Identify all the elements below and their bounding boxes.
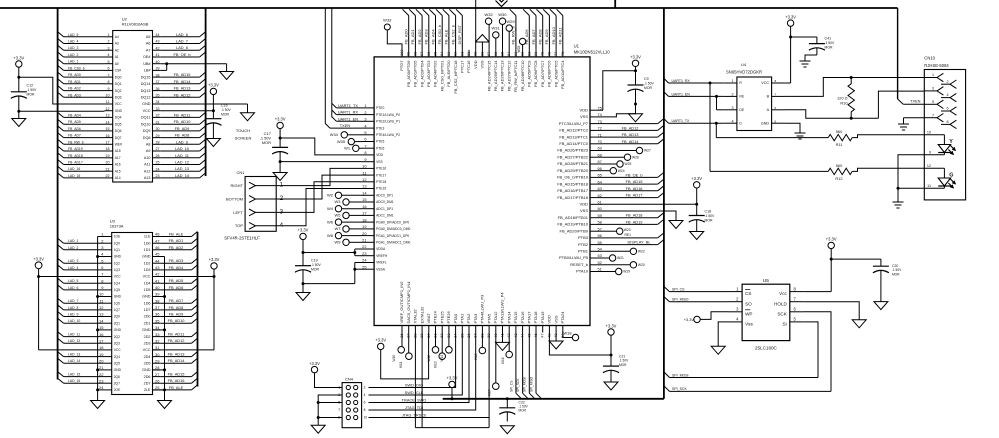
jumper W34 — [330, 132, 361, 138]
wire +3.3V to U2 pin 11 VCC — [19, 67, 105, 104]
svg-text:FB_AD2: FB_AD2 — [68, 87, 81, 91]
IC U1 left pins — [361, 103, 411, 271]
wire U2 pin 34 GND — [161, 104, 248, 113]
svg-text:560: 560 — [836, 163, 843, 168]
svg-text:1D7: 1D7 — [144, 308, 151, 312]
svg-text:27: 27 — [156, 147, 160, 151]
svg-text:FB_AD14/PTC0: FB_AD14/PTC0 — [559, 141, 588, 146]
svg-text:FB_AD16: FB_AD16 — [626, 186, 643, 191]
capacitor C12 — [11, 77, 37, 111]
svg-text:FB_AD3: FB_AD3 — [68, 93, 81, 97]
svg-text:PTE4/LLWU_P2: PTE4/LLWU_P2 — [376, 133, 400, 137]
svg-text:W13: W13 — [434, 361, 438, 368]
svg-text:1D5: 1D5 — [144, 288, 151, 292]
svg-text:VSS: VSS — [580, 208, 588, 213]
svg-text:VCC: VCC — [143, 109, 151, 113]
svg-text:W31: W31 — [491, 26, 500, 31]
svg-text:45: 45 — [155, 252, 160, 257]
svg-text:W17: W17 — [487, 389, 491, 396]
svg-text:PTB2: PTB2 — [578, 242, 589, 247]
svg-text:DISPLAY_BL: DISPLAY_BL — [627, 239, 651, 244]
wire +3.3V to U1 pin 8 VDD — [280, 129, 361, 155]
svg-text:WE#: WE# — [115, 143, 122, 147]
wire U2 pin 12 GND to C12 — [19, 110, 105, 112]
svg-text:LAD_16: LAD_16 — [68, 167, 80, 171]
svg-text:SO: SO — [745, 301, 752, 306]
svg-text:VCC: VCC — [143, 275, 151, 279]
svg-text:2: 2 — [108, 40, 110, 44]
svg-text:FB_CS0_b/PTD1: FB_CS0_b/PTD1 — [439, 60, 444, 92]
svg-text:PTA3: PTA3 — [473, 313, 478, 323]
svg-text:14: 14 — [99, 318, 104, 323]
svg-text:11: 11 — [106, 100, 110, 104]
svg-text:FB_AD26/PTC13: FB_AD26/PTC13 — [500, 60, 505, 92]
svg-text:19: 19 — [362, 224, 366, 229]
svg-text:79: 79 — [540, 52, 545, 56]
svg-text:C9: C9 — [644, 77, 649, 81]
svg-text:12: 12 — [927, 164, 931, 168]
wire +3.3V to bottom rail — [451, 388, 454, 401]
ground below C18 — [690, 232, 704, 240]
svg-text:PTA16: PTA16 — [520, 311, 525, 324]
svg-text:UART1_RX: UART1_RX — [672, 79, 691, 83]
wire +3.3V to U5 Vcc — [803, 249, 832, 292]
svg-text:29: 29 — [155, 358, 160, 363]
svg-text:W3: W3 — [335, 199, 342, 204]
svg-text:FB_AD17/PTB16: FB_AD17/PTB16 — [557, 195, 588, 200]
connector CN10 pin11 stub — [927, 184, 931, 188]
wire R11 to CN10 pin10 — [852, 135, 924, 138]
svg-text:1D3: 1D3 — [144, 268, 151, 272]
svg-text:UB#: UB# — [143, 62, 151, 66]
svg-text:5: 5 — [108, 60, 110, 64]
svg-text:89: 89 — [473, 52, 478, 56]
svg-text:HOLD: HOLD — [774, 301, 787, 306]
svg-text:2D7: 2D7 — [144, 381, 151, 385]
svg-text:GND: GND — [115, 109, 123, 113]
svg-text:XTAL32: XTAL32 — [413, 309, 418, 324]
wire U2 pin 33 VCC to C16 — [161, 95, 214, 111]
svg-text:15: 15 — [99, 325, 104, 330]
svg-text:FB_AD9: FB_AD9 — [175, 126, 190, 131]
svg-text:RIGHT: RIGHT — [231, 183, 244, 188]
wire +3.3V to U1 pin 75 VDD — [603, 67, 636, 111]
capacitor C19 — [295, 253, 322, 284]
svg-text:C18: C18 — [705, 210, 712, 214]
svg-text:DQ10: DQ10 — [141, 122, 151, 126]
svg-text:FB_AD4: FB_AD4 — [68, 113, 81, 117]
svg-text:FB_AD19: FB_AD19 — [68, 147, 83, 151]
svg-text:8: 8 — [946, 120, 948, 124]
svg-text:+3.3V: +3.3V — [298, 228, 309, 233]
svg-text:46: 46 — [155, 245, 160, 250]
svg-text:R1LV0816ASB: R1LV0816ASB — [122, 22, 149, 27]
svg-text:FB_AD10: FB_AD10 — [174, 119, 192, 124]
svg-text:86: 86 — [493, 52, 498, 56]
jumper W32 — [484, 12, 493, 50]
svg-text:TRACE_SWO: TRACE_SWO — [402, 398, 427, 403]
svg-text:PTE24: PTE24 — [433, 310, 438, 323]
power +3.3V symbol for VBAT — [375, 338, 386, 350]
LED G green — [924, 168, 955, 188]
svg-text:1Q1: 1Q1 — [114, 248, 120, 252]
svg-text:TOP: TOP — [235, 223, 243, 228]
junction C17 bottom — [279, 160, 282, 163]
svg-text:3: 3 — [280, 208, 284, 215]
svg-text:13: 13 — [106, 114, 110, 118]
wire U4 GND to ground — [785, 123, 800, 130]
svg-text:.1 50V: .1 50V — [27, 88, 38, 92]
svg-text:FB_ALE: FB_ALE — [169, 385, 184, 390]
wire SPI_MISO net — [664, 297, 729, 302]
power +3.3V symbol for C12 — [13, 55, 24, 67]
svg-text:DQ2: DQ2 — [115, 89, 122, 93]
svg-text:FB_AD27/PTC12: FB_AD27/PTC12 — [506, 60, 511, 92]
wire U2 UB#/LB# to ground — [161, 64, 227, 72]
svg-text:47: 47 — [540, 334, 545, 338]
svg-text:LAD_6: LAD_6 — [176, 32, 188, 37]
svg-text:FB_AD17: FB_AD17 — [626, 193, 643, 198]
svg-text:2: 2 — [731, 93, 733, 97]
svg-text:DQ14: DQ14 — [141, 82, 151, 86]
wire +3.3V to U1 pin 61 VDD — [603, 188, 697, 204]
svg-text:PTE19: PTE19 — [376, 187, 386, 191]
wire U2 right bus — [205, 8, 207, 176]
svg-text:FB_AD11: FB_AD11 — [558, 27, 563, 45]
svg-text:2Q0: 2Q0 — [114, 315, 120, 319]
svg-text:A11: A11 — [144, 163, 150, 167]
power +3.3V symbol for C21 — [606, 323, 617, 335]
wires FB_OE FB_AD15-17 to bus — [603, 172, 664, 197]
svg-text:VCC: VCC — [115, 102, 123, 106]
svg-text:VREFH: VREFH — [376, 254, 388, 258]
svg-text:FB_AD2: FB_AD2 — [169, 245, 184, 250]
svg-text:DQ3: DQ3 — [115, 96, 122, 100]
svg-text:FB_AD9: FB_AD9 — [544, 29, 549, 45]
svg-text:PTA17: PTA17 — [527, 311, 532, 324]
svg-text:SPI_MISO: SPI_MISO — [529, 376, 533, 392]
svg-text:UART1_EN: UART1_EN — [672, 92, 691, 96]
svg-text:FB_RW_b: FB_RW_b — [68, 140, 84, 144]
svg-text:1LE: 1LE — [144, 235, 151, 239]
svg-text:27: 27 — [155, 372, 160, 377]
svg-text:DQ13: DQ13 — [141, 89, 151, 93]
svg-text:1D0: 1D0 — [144, 241, 151, 245]
svg-text:LAD_8: LAD_8 — [176, 45, 188, 50]
wire TXEN net from top bus — [897, 8, 899, 99]
svg-text:W28: W28 — [517, 46, 521, 53]
svg-text:21: 21 — [99, 365, 104, 370]
jumpers W19-W22 — [603, 248, 645, 275]
svg-text:DQ5: DQ5 — [115, 122, 122, 126]
ground below CN4 — [311, 425, 325, 433]
svg-text:12: 12 — [362, 177, 366, 182]
svg-text:FB_AD2: FB_AD2 — [417, 29, 422, 45]
svg-text:FB_AD19: FB_AD19 — [626, 219, 643, 224]
svg-text:22: 22 — [362, 244, 366, 249]
jumper W18 — [563, 331, 579, 341]
wire DE pin jumper — [717, 96, 724, 109]
svg-text:GND: GND — [142, 295, 151, 299]
svg-text:SN65HVD72DGKR: SN65HVD72DGKR — [726, 70, 762, 75]
svg-text:34: 34 — [155, 325, 160, 330]
svg-text:+3.3V: +3.3V — [630, 55, 641, 60]
svg-text:5: 5 — [932, 100, 934, 104]
svg-text:7: 7 — [108, 73, 110, 77]
svg-text:MOR: MOR — [644, 86, 652, 90]
svg-text:.1 50V: .1 50V — [311, 263, 322, 267]
svg-text:FB_AD3: FB_AD3 — [169, 258, 184, 263]
svg-text:W29: W29 — [506, 19, 515, 24]
svg-text:W22: W22 — [638, 250, 645, 254]
svg-text:2D3: 2D3 — [144, 341, 151, 345]
svg-text:LAD_6: LAD_6 — [68, 286, 78, 290]
wire U5 Vss to ground — [718, 322, 728, 346]
jumper W29 — [506, 19, 515, 50]
svg-text:FB_AD13: FB_AD13 — [174, 86, 191, 91]
svg-text:1Q3: 1Q3 — [114, 268, 120, 272]
svg-text:W27: W27 — [644, 149, 651, 153]
svg-text:FB_AD11/PTC4: FB_AD11/PTC4 — [560, 60, 565, 89]
wires U2 right nets to bus — [161, 32, 206, 178]
svg-text:A9: A9 — [146, 149, 151, 153]
svg-text:SWD_CLK: SWD_CLK — [405, 390, 424, 395]
wire U1 pin 9 VSS — [280, 161, 361, 163]
svg-text:93: 93 — [446, 52, 451, 56]
svg-text:39: 39 — [156, 67, 160, 71]
capacitor C17 — [260, 131, 288, 161]
svg-text:W12: W12 — [427, 355, 431, 362]
svg-text:FB_AD15/PTB18: FB_AD15/PTB18 — [557, 181, 588, 186]
svg-text:23: 23 — [156, 174, 160, 178]
svg-text:PTE25: PTE25 — [439, 310, 444, 323]
jumper W35 — [337, 138, 361, 144]
wire SPI_MOSI net — [664, 322, 818, 378]
svg-text:RE: RE — [739, 95, 744, 99]
svg-text:FB_AD15: FB_AD15 — [168, 372, 185, 377]
wire U4 A to R10 and CN10 pin3 — [785, 91, 924, 118]
wire +3.3V to U3 VCC pins — [153, 269, 215, 350]
svg-text:+3.3V: +3.3V — [375, 338, 386, 343]
svg-text:8: 8 — [364, 150, 366, 155]
svg-text:+3.3V: +3.3V — [826, 237, 837, 242]
svg-text:PTE18: PTE18 — [376, 180, 386, 184]
svg-text:40: 40 — [156, 60, 160, 64]
svg-text:2: 2 — [946, 80, 948, 84]
svg-text:+3.3V: +3.3V — [13, 55, 24, 60]
capacitor C21 — [603, 355, 629, 383]
svg-text:LAD_12: LAD_12 — [68, 339, 80, 343]
junctions U3 left GND pins — [96, 255, 99, 391]
svg-text:28: 28 — [156, 141, 160, 145]
svg-text:25: 25 — [156, 161, 160, 165]
svg-text:10: 10 — [364, 416, 368, 420]
svg-text:LAD_15: LAD_15 — [68, 174, 80, 178]
svg-text:6: 6 — [364, 137, 366, 142]
resistor R11 560 — [828, 129, 852, 147]
svg-text:W11: W11 — [399, 361, 403, 368]
svg-text:FB_AD7: FB_AD7 — [169, 298, 184, 303]
svg-text:1Q0: 1Q0 — [114, 241, 120, 245]
svg-text:VDD: VDD — [547, 315, 552, 324]
svg-text:LAD_10: LAD_10 — [175, 146, 190, 151]
svg-text:1: 1 — [364, 103, 366, 108]
wires UART1 nets U1 to bus — [332, 8, 361, 121]
svg-text:JTAG_TDI: JTAG_TDI — [405, 405, 423, 410]
svg-text:7: 7 — [364, 143, 366, 148]
wire U1 pin 74 VSS to ground — [603, 104, 636, 117]
svg-text:GND: GND — [114, 368, 122, 372]
svg-text:1: 1 — [280, 182, 284, 189]
svg-text:59: 59 — [598, 213, 602, 218]
svg-text:4: 4 — [946, 93, 948, 97]
ground below C21 — [604, 382, 618, 390]
svg-text:78: 78 — [546, 52, 551, 56]
svg-text:19: 19 — [106, 154, 110, 158]
svg-text:58: 58 — [598, 220, 602, 225]
svg-text:A18: A18 — [115, 149, 121, 153]
svg-text:24: 24 — [156, 167, 160, 171]
svg-text:6: 6 — [946, 107, 948, 111]
svg-text:2: 2 — [364, 386, 366, 390]
svg-text:DQ7: DQ7 — [115, 136, 122, 140]
svg-text:99: 99 — [406, 52, 411, 56]
svg-text:MOR: MOR — [262, 140, 271, 145]
svg-text:SWD_DIO: SWD_DIO — [405, 383, 423, 388]
svg-text:FB_AD1: FB_AD1 — [410, 29, 415, 45]
svg-text:SFV4R-2STE1HLF: SFV4R-2STE1HLF — [224, 236, 260, 241]
IC U1 top pins — [399, 49, 565, 94]
svg-text:DQ9: DQ9 — [143, 129, 151, 133]
svg-text:W35: W35 — [337, 139, 345, 144]
svg-text:36: 36 — [155, 312, 160, 317]
svg-text:LAD_3: LAD_3 — [68, 46, 78, 50]
capacitor C16 — [205, 104, 231, 132]
svg-text:LAD_14: LAD_14 — [175, 173, 190, 178]
svg-text:VREFL: VREFL — [376, 261, 387, 265]
connector CN10 pin12 stub — [924, 164, 944, 168]
svg-text:81: 81 — [526, 52, 531, 56]
svg-text:61: 61 — [598, 200, 602, 205]
svg-text:FB_OE_b/PTB19: FB_OE_b/PTB19 — [557, 175, 589, 180]
jumper W11 — [399, 333, 412, 369]
svg-text:37: 37 — [156, 80, 160, 84]
svg-text:FB_AD14: FB_AD14 — [174, 79, 192, 84]
svg-text:FB_AD4: FB_AD4 — [430, 29, 435, 45]
svg-text:W26: W26 — [632, 155, 639, 159]
svg-text:R11: R11 — [836, 142, 843, 147]
svg-text:3: 3 — [108, 46, 110, 50]
svg-text:43: 43 — [155, 265, 160, 270]
svg-text:FB_RW_b/PTC11: FB_RW_b/PTC11 — [513, 60, 518, 92]
ground below U5 Vss — [711, 346, 725, 354]
svg-text:A5: A5 — [146, 35, 151, 39]
ground below C17 — [273, 162, 287, 181]
power +3.3V symbol for C19 — [298, 228, 309, 240]
svg-text:16: 16 — [362, 204, 366, 209]
svg-text:GND: GND — [114, 255, 122, 259]
svg-text:PTA13/LLWU_P4: PTA13/LLWU_P4 — [500, 292, 505, 324]
svg-text:13: 13 — [99, 312, 104, 317]
wires CN1 to U1 PTE16-19 — [286, 168, 362, 225]
svg-text:W23: W23 — [624, 228, 631, 232]
junction C19 bottom — [302, 282, 305, 285]
svg-text:57: 57 — [598, 226, 602, 231]
svg-text:36: 36 — [156, 87, 160, 91]
svg-text:FB_AD15: FB_AD15 — [626, 179, 643, 184]
svg-text:32: 32 — [155, 338, 160, 343]
svg-text:31: 31 — [156, 120, 160, 124]
jumper W28 — [517, 38, 526, 52]
svg-text:1D6: 1D6 — [144, 301, 151, 305]
svg-text:.1 50V: .1 50V — [221, 108, 232, 112]
wire +3.3V to U4 VCC — [785, 26, 792, 83]
IC U1 body — [374, 57, 590, 326]
svg-text:VSS: VSS — [480, 60, 485, 68]
svg-text:2Q3: 2Q3 — [114, 341, 120, 345]
svg-text:ADC0_DM1: ADC0_DM1 — [376, 200, 394, 204]
svg-text:JTAG_TRSCb: JTAG_TRSCb — [402, 413, 427, 418]
svg-text:PTE0: PTE0 — [376, 106, 384, 110]
svg-text:2: 2 — [280, 195, 284, 202]
wire UART1_EN U4 — [664, 92, 723, 98]
svg-text:SPI_SCK: SPI_SCK — [516, 378, 520, 392]
svg-text:20: 20 — [106, 161, 110, 165]
wire UART1_TX U4 — [664, 119, 723, 125]
svg-text:LAD_15: LAD_15 — [68, 373, 80, 377]
svg-text:7: 7 — [338, 407, 340, 412]
connector CN4 pins — [338, 385, 367, 420]
svg-text:W7: W7 — [335, 226, 342, 231]
wire left LAD/FB bus — [57, 8, 59, 380]
ground below U4 — [795, 130, 806, 139]
svg-text:68: 68 — [598, 152, 602, 157]
label TOUCH SCREEN — [235, 128, 252, 141]
ground below C19 — [296, 284, 310, 301]
svg-text:42: 42 — [155, 272, 160, 277]
svg-text:21: 21 — [106, 167, 110, 171]
IC U1 right pins — [557, 105, 603, 273]
svg-text:FB_AD16/PTB17: FB_AD16/PTB17 — [557, 188, 588, 193]
svg-text:24: 24 — [99, 385, 104, 390]
svg-text:C19: C19 — [311, 259, 318, 263]
svg-text:VDD: VDD — [473, 60, 478, 69]
svg-text:15: 15 — [106, 127, 110, 131]
wires XTAL32 EXTAL32 down — [415, 333, 489, 428]
svg-text:PTA19: PTA19 — [576, 269, 589, 274]
svg-text:PTA12: PTA12 — [493, 311, 498, 324]
ground below C16 — [206, 132, 220, 147]
connector CN1 pins — [249, 182, 286, 230]
svg-text:25LC160C: 25LC160C — [755, 346, 778, 351]
svg-text:MOR: MOR — [221, 113, 229, 117]
svg-text:6: 6 — [108, 67, 110, 71]
svg-text:VCC: VCC — [143, 348, 151, 352]
svg-text:OE#: OE# — [143, 55, 151, 59]
svg-text:A6: A6 — [146, 42, 151, 46]
svg-text:560: 560 — [836, 129, 843, 134]
ground for UB#/LB# — [220, 72, 234, 80]
svg-text:PTE26: PTE26 — [446, 310, 451, 323]
svg-text:FB_AD10: FB_AD10 — [168, 318, 186, 323]
svg-text:FB_AD15: FB_AD15 — [174, 72, 191, 77]
wire main top bus — [0, 7, 898, 9]
svg-text:1: 1 — [731, 79, 733, 83]
svg-text:W18: W18 — [564, 331, 572, 336]
svg-text:71: 71 — [598, 132, 602, 137]
wire CN10 pin7 to ground — [904, 118, 925, 121]
svg-text:W34: W34 — [330, 132, 339, 137]
